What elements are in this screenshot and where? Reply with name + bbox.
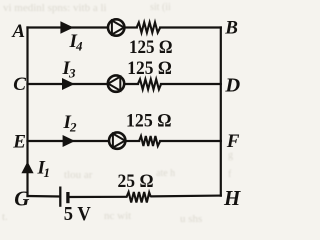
lamp L2 row2 xyxy=(108,75,124,91)
svg-text:vi medinl spns: vitb a li: vi medinl spns: vitb a li xyxy=(3,2,107,14)
svg-text:E: E xyxy=(12,132,26,153)
wire resistor to B xyxy=(160,26,221,28)
svg-text:F: F xyxy=(226,131,240,152)
svg-text:tlou ar: tlou ar xyxy=(64,169,93,181)
wire right rail B-D-F-H xyxy=(220,28,222,196)
svg-text:u shs: u shs xyxy=(180,213,202,225)
wire resistor to D xyxy=(161,83,221,85)
svg-text:D: D xyxy=(224,74,240,96)
wire battery to resistor bottom xyxy=(68,196,126,198)
faint bleed-through text top xyxy=(3,2,171,14)
current arrow I2 xyxy=(63,135,75,147)
lamp L3 row3 xyxy=(109,132,125,148)
resistor R1 125ohm row1 xyxy=(137,22,161,32)
current arrow I1 (up, on left rail) xyxy=(21,162,33,174)
wire resistor to H xyxy=(152,195,221,198)
svg-text:5 V: 5 V xyxy=(64,203,91,225)
svg-text:sit (ii: sit (ii xyxy=(150,2,171,13)
wire resistor to F xyxy=(160,140,221,142)
svg-text:C: C xyxy=(13,74,26,95)
svg-text:125 Ω: 125 Ω xyxy=(129,37,173,58)
wire left rail A-C-E-G xyxy=(26,28,28,197)
resistor R4 25ohm bottom xyxy=(127,192,151,203)
svg-text:t.: t. xyxy=(2,211,8,223)
svg-text:ate h: ate h xyxy=(156,168,175,179)
current arrow I4 xyxy=(60,21,73,33)
resistor R2 125ohm row2 xyxy=(138,79,161,89)
svg-text:125 Ω: 125 Ω xyxy=(127,58,172,79)
svg-text:nc wit: nc wit xyxy=(104,210,131,222)
svg-text:125 Ω: 125 Ω xyxy=(126,110,172,131)
wire E to lamp row 3 xyxy=(28,140,110,142)
battery B1 5V xyxy=(60,187,68,207)
lamp L1 row1 xyxy=(108,19,124,35)
resistor R3 125ohm row3 xyxy=(139,136,160,146)
svg-text:2: 2 xyxy=(69,120,77,135)
svg-text:25 Ω: 25 Ω xyxy=(118,171,154,192)
svg-text:G: G xyxy=(14,186,29,210)
svg-text:A: A xyxy=(11,21,25,42)
wire G to battery xyxy=(28,195,60,198)
faint bleed-through text middle xyxy=(64,150,233,181)
svg-text:H: H xyxy=(223,186,241,210)
current arrow I3 xyxy=(62,78,75,90)
svg-text:1: 1 xyxy=(44,165,51,180)
wire C to lamp row 2 xyxy=(28,83,108,85)
wire top rail A to lamp xyxy=(28,26,109,28)
faint bleed-through text bottom xyxy=(2,169,232,225)
wire lamp to resistor row 3 xyxy=(126,140,140,142)
wire lamp to resistor row 1 xyxy=(125,26,137,28)
svg-text:B: B xyxy=(224,18,238,39)
svg-text:4: 4 xyxy=(75,39,83,54)
wire lamp to resistor row 2 xyxy=(124,83,138,85)
svg-text:3: 3 xyxy=(68,66,76,81)
